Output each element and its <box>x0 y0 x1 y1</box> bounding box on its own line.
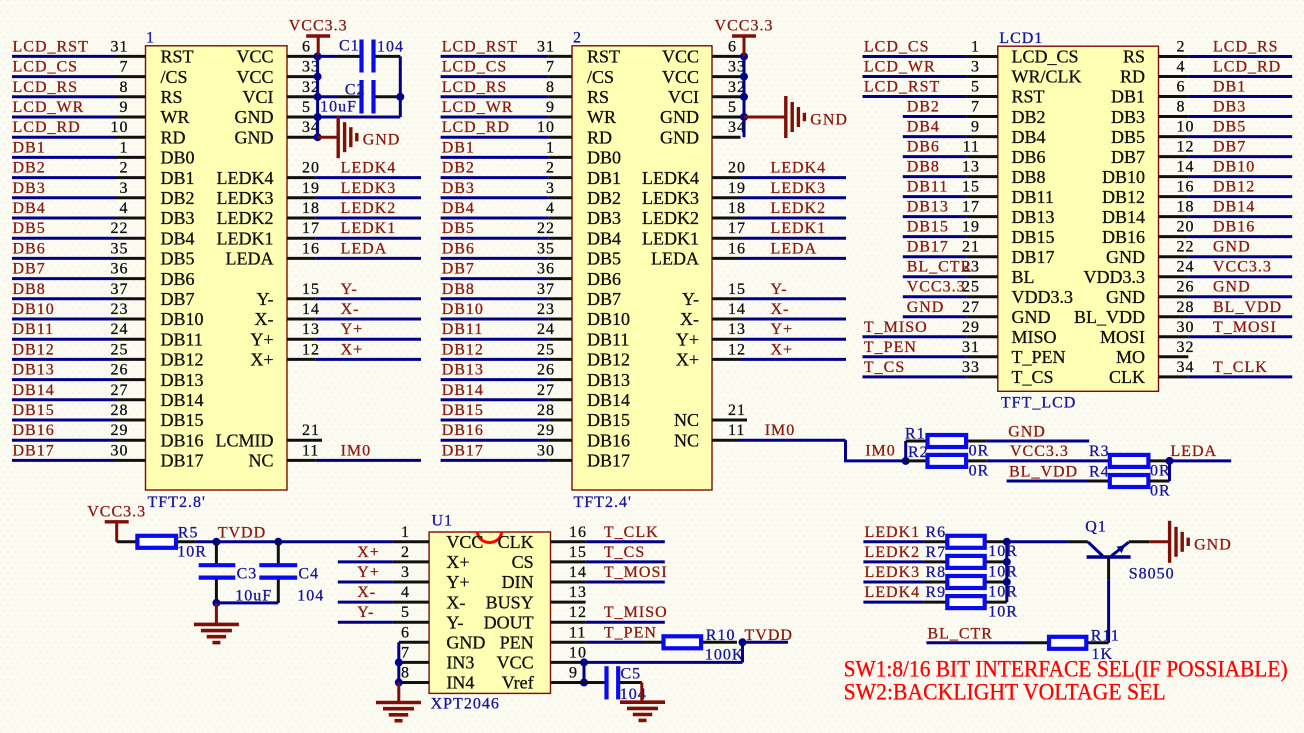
svg-text:DB5: DB5 <box>587 249 621 269</box>
svg-text:15: 15 <box>962 179 980 196</box>
svg-text:GND: GND <box>1106 287 1145 307</box>
svg-text:DB6: DB6 <box>587 269 621 289</box>
junction TFT2.8' power row 0 <box>314 52 322 60</box>
svg-text:C3: C3 <box>237 565 258 582</box>
svg-text:DB2: DB2 <box>1012 107 1046 127</box>
svg-text:DB17: DB17 <box>907 239 949 256</box>
svg-text:T_MISO: T_MISO <box>604 604 668 621</box>
svg-text:LEDK2: LEDK2 <box>771 200 827 217</box>
wire net LEDK1 to R6 <box>863 540 945 543</box>
wire net LEDK1 from TFT2.4' pin 17 <box>712 237 846 240</box>
svg-text:DB6: DB6 <box>161 269 195 289</box>
svg-text:DB12: DB12 <box>587 350 630 370</box>
wire net LEDK1 from TFT2.8' pin 17 <box>287 237 421 240</box>
svg-text:5: 5 <box>728 99 737 116</box>
svg-text:MOSI: MOSI <box>1100 327 1145 347</box>
pin stub TFT2.8' pin 21 LCMID <box>287 439 322 442</box>
svg-text:DIN: DIN <box>502 572 534 592</box>
svg-text:X+: X+ <box>676 350 699 370</box>
svg-text:DB12: DB12 <box>1213 179 1255 196</box>
wire net TVDD from R5 to U1 pin1 <box>195 540 393 543</box>
svg-text:RST: RST <box>1012 87 1045 107</box>
svg-text:DB6: DB6 <box>442 240 475 257</box>
svg-text:VCC: VCC <box>236 67 273 87</box>
power VCC3.3 at TFT2.8' <box>289 18 348 57</box>
svg-text:DB17: DB17 <box>587 451 630 471</box>
svg-text:37: 37 <box>537 281 555 298</box>
svg-text:NC: NC <box>248 451 273 471</box>
svg-text:DB7: DB7 <box>1111 147 1145 167</box>
wire net DB13 to TFT2.8' pin 26 <box>12 378 146 381</box>
svg-text:R8: R8 <box>926 564 947 581</box>
svg-text:37: 37 <box>111 281 129 298</box>
junction TFT2.4' power row 1 <box>740 73 748 81</box>
svg-text:36: 36 <box>537 261 555 278</box>
wire net BL_CTR to R11 <box>926 641 1047 644</box>
wire net T_MISO to TFT_LCD pin 29 <box>863 335 998 338</box>
wire net DB10 to TFT2.4' pin 23 <box>441 318 572 321</box>
ground GND at Q1 <box>1170 521 1232 563</box>
svg-text:DB13: DB13 <box>442 362 484 379</box>
junction TFT2.8' power row 4 <box>314 133 322 141</box>
wire net LEDK3 to R8 <box>863 581 945 584</box>
svg-text:31: 31 <box>111 38 129 55</box>
svg-text:22: 22 <box>1177 239 1195 256</box>
wire net T_PEN to TFT_LCD pin 31 <box>863 355 998 358</box>
svg-text:S8050: S8050 <box>1129 566 1175 583</box>
svg-text:DB12: DB12 <box>161 350 204 370</box>
junction LEDK bus 2 <box>1003 578 1011 586</box>
svg-text:13: 13 <box>569 584 587 601</box>
pin stub TFT2.4' pin 5 <box>712 116 741 119</box>
svg-text:DB3: DB3 <box>161 208 195 228</box>
pin stub TFT2.8' pin 6 <box>287 55 315 58</box>
wire net LEDA <box>1170 459 1232 462</box>
svg-text:26: 26 <box>1177 279 1195 296</box>
svg-text:27: 27 <box>111 382 129 399</box>
svg-text:19: 19 <box>302 180 320 197</box>
svg-text:104: 104 <box>297 588 324 605</box>
wire net DB1 to TFT2.4' pin 1 <box>441 156 572 159</box>
wire net DB8 to TFT2.8' pin 37 <box>12 297 146 300</box>
wire net T_PEN from U1 pin11 <box>551 641 662 644</box>
wire pins 9-10 bus <box>583 662 586 682</box>
capacitor C3 <box>199 542 236 603</box>
resistor R7 <box>947 556 1007 568</box>
svg-text:Y+: Y+ <box>446 572 469 592</box>
svg-text:DB3: DB3 <box>442 180 475 197</box>
svg-text:13: 13 <box>962 159 980 176</box>
wire net DB14 from TFT_LCD pin 18 <box>1159 215 1293 218</box>
svg-text:DB8: DB8 <box>13 281 46 298</box>
svg-text:BL_CTR: BL_CTR <box>907 259 973 276</box>
svg-text:LCD_CS: LCD_CS <box>864 39 930 56</box>
wire net DB3 to TFT2.8' pin 3 <box>12 196 146 199</box>
junction IM0 at R1/R2 <box>902 457 910 465</box>
junction TVDD at C3 <box>212 538 220 546</box>
wire net DB7 from TFT_LCD pin 12 <box>1159 155 1293 158</box>
wire net Y- to U1 pin 5 <box>338 621 429 624</box>
svg-text:VCC: VCC <box>662 47 699 67</box>
wire ground stem C5 <box>640 683 643 702</box>
svg-text:C5: C5 <box>621 666 642 683</box>
svg-text:DB14: DB14 <box>161 390 204 410</box>
wire net VCC3.3 from R2 to R3 <box>986 459 1108 462</box>
svg-text:LCD_CS: LCD_CS <box>1012 47 1079 67</box>
svg-text:DB13: DB13 <box>907 199 949 216</box>
svg-text:VCC3.3: VCC3.3 <box>87 503 146 520</box>
wire net BL_VDD to R4 <box>1007 480 1088 483</box>
wire net LCD_RD to TFT2.8' pin 10 <box>12 136 146 139</box>
wire net BL_VDD from TFT_LCD pin 28 <box>1159 315 1293 318</box>
wire net TVDD from R10 <box>743 641 789 644</box>
wire net X+ from TFT2.4' pin 12 <box>712 358 846 361</box>
svg-text:R3: R3 <box>1089 443 1110 460</box>
junction LEDK bus 0 <box>1003 538 1011 546</box>
wire net GND from TFT_LCD pin 26 <box>1159 295 1293 298</box>
svg-text:DB3: DB3 <box>1111 107 1145 127</box>
connector TFT2.8' body <box>146 46 288 490</box>
svg-text:R7: R7 <box>926 544 947 561</box>
wire IM0 up to R1 <box>904 441 907 461</box>
svg-text:LEDK3: LEDK3 <box>771 180 827 197</box>
svg-text:LEDK4: LEDK4 <box>865 584 921 601</box>
svg-text:DB11: DB11 <box>161 329 203 349</box>
svg-text:11: 11 <box>963 139 980 156</box>
svg-text:Y+: Y+ <box>341 321 364 338</box>
svg-text:26: 26 <box>111 362 129 379</box>
svg-text:7: 7 <box>120 59 129 76</box>
svg-text:SW1:8/16 BIT INTERFACE SEL(IF: SW1:8/16 BIT INTERFACE SEL(IF POSSIABLE) <box>844 657 1288 682</box>
svg-text:DB10: DB10 <box>587 309 630 329</box>
svg-text:R2: R2 <box>908 444 929 461</box>
svg-text:7: 7 <box>546 59 555 76</box>
svg-text:DB7: DB7 <box>161 289 195 309</box>
wire net DB2 to TFT_LCD pin 7 <box>903 115 998 118</box>
svg-text:GND: GND <box>1213 279 1251 296</box>
wire net Y- from TFT2.4' pin 15 <box>712 297 846 300</box>
wire net IM0 from TFT2.8' pin 11 <box>287 459 421 462</box>
svg-text:29: 29 <box>537 422 555 439</box>
svg-text:RST: RST <box>161 47 194 67</box>
svg-text:T_PEN: T_PEN <box>1012 347 1066 367</box>
svg-text:X+: X+ <box>357 544 380 561</box>
svg-text:27: 27 <box>962 299 980 316</box>
svg-text:R5: R5 <box>178 524 199 541</box>
wire net LCD_CS to TFT_LCD pin 1 <box>863 55 998 58</box>
svg-text:CLK: CLK <box>1109 367 1145 387</box>
svg-text:DB7: DB7 <box>13 261 46 278</box>
resistor R4 <box>1088 475 1170 487</box>
svg-text:DB11: DB11 <box>13 321 55 338</box>
wire net LCD_RS to TFT2.4' pin 8 <box>441 95 572 98</box>
wire C3/C4 ground return <box>216 601 278 604</box>
svg-text:DB5: DB5 <box>442 220 475 237</box>
resistor R6 <box>947 536 1007 548</box>
wire net LEDK4 from TFT2.8' pin 20 <box>287 176 421 179</box>
wire net LCD_CS to TFT2.4' pin 7 <box>441 75 572 78</box>
svg-text:T_MISO: T_MISO <box>864 319 928 336</box>
svg-text:9: 9 <box>569 665 578 682</box>
svg-text:Q1: Q1 <box>1085 519 1107 536</box>
pin stub U1 pin7 IN3 <box>399 661 429 664</box>
svg-text:DB3: DB3 <box>587 208 621 228</box>
svg-text:DB6: DB6 <box>907 139 940 156</box>
svg-text:GND: GND <box>1106 247 1145 267</box>
svg-text:DB6: DB6 <box>1012 147 1046 167</box>
ground earth at C3/C4 <box>194 624 239 642</box>
svg-text:X-: X- <box>680 309 699 329</box>
svg-text:13: 13 <box>302 321 320 338</box>
svg-text:RD: RD <box>1120 67 1145 87</box>
wire net DB4 to TFT2.4' pin 4 <box>441 217 572 220</box>
pin stub TFT2.4' pin 34 <box>712 136 741 139</box>
wire net Y+ from TFT2.8' pin 13 <box>287 338 421 341</box>
wire net DB1 to TFT2.8' pin 1 <box>12 156 146 159</box>
svg-text:18: 18 <box>1177 199 1195 216</box>
svg-text:9: 9 <box>971 119 980 136</box>
junction LEDK bus 1 <box>1003 558 1011 566</box>
svg-text:15: 15 <box>302 281 320 298</box>
svg-text:17: 17 <box>302 220 320 237</box>
resistor R9 <box>947 596 1007 608</box>
wire LEDK bus vertical <box>1005 542 1008 602</box>
wire net DB11 to TFT2.8' pin 24 <box>12 338 146 341</box>
wire net DB12 to TFT2.4' pin 25 <box>441 358 572 361</box>
wire net DB14 to TFT2.8' pin 27 <box>12 398 146 401</box>
wire net GND to TFT_LCD pin 27 <box>903 315 998 318</box>
svg-text:32: 32 <box>1177 339 1195 356</box>
svg-text:X-: X- <box>771 301 790 318</box>
wire net DB12 to TFT2.8' pin 25 <box>12 358 146 361</box>
svg-text:R11: R11 <box>1091 628 1120 645</box>
svg-text:DB4: DB4 <box>587 228 621 248</box>
svg-text:DB5: DB5 <box>13 220 46 237</box>
svg-text:LCMID: LCMID <box>216 430 274 450</box>
svg-text:1: 1 <box>401 524 410 541</box>
wire net LEDK3 from TFT2.4' pin 19 <box>712 196 846 199</box>
svg-text:12: 12 <box>569 604 587 621</box>
transistor Q1 <box>1087 542 1131 581</box>
svg-text:17: 17 <box>962 199 980 216</box>
svg-text:28: 28 <box>111 402 129 419</box>
svg-text:RS: RS <box>587 87 609 107</box>
svg-text:DB5: DB5 <box>161 249 195 269</box>
svg-text:DB1: DB1 <box>161 168 195 188</box>
svg-text:PEN: PEN <box>500 633 534 653</box>
svg-text:9: 9 <box>546 99 555 116</box>
svg-text:27: 27 <box>537 382 555 399</box>
svg-text:DB5: DB5 <box>1213 119 1246 136</box>
svg-text:/CS: /CS <box>587 67 614 87</box>
svg-text:DB1: DB1 <box>442 139 475 156</box>
svg-text:VCC: VCC <box>446 532 483 552</box>
svg-text:Vref: Vref <box>502 673 534 693</box>
svg-text:MO: MO <box>1116 347 1145 367</box>
wire U1 gnd bus <box>397 642 400 682</box>
svg-text:VCC3.3: VCC3.3 <box>715 18 774 35</box>
svg-text:15: 15 <box>728 281 746 298</box>
svg-text:DB4: DB4 <box>161 228 195 248</box>
svg-text:GND: GND <box>810 112 848 129</box>
svg-text:DB11: DB11 <box>442 321 484 338</box>
svg-text:TFT2.4': TFT2.4' <box>574 494 632 511</box>
wire net X- from TFT2.4' pin 14 <box>712 318 846 321</box>
svg-text:22: 22 <box>111 220 129 237</box>
wire net LEDK4 from TFT2.4' pin 20 <box>712 176 846 179</box>
wire R4 up to LEDA <box>1168 461 1171 481</box>
wire net DB10 from TFT_LCD pin 14 <box>1159 175 1293 178</box>
polarity arc on U1 <box>478 532 502 543</box>
wire net LCD_RS from TFT_LCD pin 2 <box>1159 55 1293 58</box>
svg-text:C4: C4 <box>298 565 319 582</box>
svg-text:DB3: DB3 <box>13 180 46 197</box>
wire net DB16 to TFT2.4' pin 29 <box>441 439 572 442</box>
svg-text:VCC3.3: VCC3.3 <box>289 18 348 35</box>
svg-text:DB12: DB12 <box>13 341 55 358</box>
svg-text:VCC: VCC <box>236 47 273 67</box>
svg-text:DB4: DB4 <box>1012 127 1046 147</box>
svg-text:Y-: Y- <box>341 281 358 298</box>
svg-text:11: 11 <box>728 422 745 439</box>
wire R10 down to pin10 row <box>741 642 744 662</box>
capacitor C5 <box>584 666 642 699</box>
svg-text:15: 15 <box>569 544 587 561</box>
svg-text:19: 19 <box>728 180 746 197</box>
op-amp U1 body <box>429 532 550 693</box>
wire net DB3 from TFT_LCD pin 8 <box>1159 115 1293 118</box>
svg-text:LEDK2: LEDK2 <box>341 200 397 217</box>
svg-text:GND: GND <box>1012 307 1051 327</box>
svg-text:LCD_RS: LCD_RS <box>13 79 79 96</box>
svg-text:12: 12 <box>1177 139 1195 156</box>
ground earth at C5 <box>620 702 665 720</box>
svg-text:35: 35 <box>111 240 129 257</box>
wire net DB12 from TFT_LCD pin 16 <box>1159 195 1293 198</box>
svg-text:GND: GND <box>907 299 945 316</box>
pin stub TFT2.4' pin 21 NC <box>712 419 747 422</box>
wire net LCD_RST to TFT2.8' pin 31 <box>12 55 146 58</box>
svg-text:VCC: VCC <box>497 653 534 673</box>
svg-text:LEDK1: LEDK1 <box>642 228 699 248</box>
capacitor C2 <box>338 80 401 114</box>
svg-text:19: 19 <box>962 219 980 236</box>
svg-text:X-: X- <box>255 309 274 329</box>
svg-text:DB2: DB2 <box>587 188 621 208</box>
svg-text:GND: GND <box>660 127 699 147</box>
svg-text:20: 20 <box>728 160 746 177</box>
svg-text:LCD1: LCD1 <box>999 30 1043 47</box>
svg-text:R10: R10 <box>706 627 736 644</box>
svg-text:LEDK4: LEDK4 <box>771 160 827 177</box>
wire VCC row to C1 <box>318 55 338 58</box>
junction U1 pin8 <box>395 679 403 687</box>
wire net DB8 to TFT2.4' pin 37 <box>441 297 572 300</box>
svg-text:1: 1 <box>146 30 155 47</box>
svg-text:10R: 10R <box>988 563 1018 580</box>
svg-text:LEDK1: LEDK1 <box>217 228 274 248</box>
wire GND stem TFT2.8' <box>318 136 339 139</box>
wire ground stem C3 <box>215 603 218 624</box>
junction U1 pin7 <box>395 658 403 666</box>
svg-text:VCI: VCI <box>668 87 699 107</box>
svg-text:5: 5 <box>401 604 410 621</box>
wire net LCD_WR to TFT_LCD pin 3 <box>863 75 998 78</box>
resistor R5 <box>137 536 195 548</box>
junction C2 right lead <box>396 93 404 101</box>
wire net DB8 to TFT_LCD pin 13 <box>903 175 998 178</box>
svg-text:LCD_CS: LCD_CS <box>442 59 508 76</box>
svg-text:LCD_WR: LCD_WR <box>442 99 514 116</box>
svg-text:XPT2046: XPT2046 <box>431 696 500 713</box>
wire net LCD_WR to TFT2.4' pin 9 <box>441 116 572 119</box>
svg-text:RS: RS <box>161 87 183 107</box>
svg-text:DB8: DB8 <box>907 159 940 176</box>
wire net T_CLK from U1 <box>551 540 665 543</box>
svg-text:11: 11 <box>569 624 586 641</box>
wire net DB5 from TFT_LCD pin 10 <box>1159 135 1293 138</box>
svg-text:LEDA: LEDA <box>651 249 699 269</box>
svg-text:4: 4 <box>1177 59 1186 76</box>
svg-text:TVDD: TVDD <box>745 627 793 644</box>
svg-text:DB17: DB17 <box>161 451 204 471</box>
svg-text:21: 21 <box>728 402 746 419</box>
svg-text:LEDA: LEDA <box>1170 443 1217 460</box>
svg-text:4: 4 <box>546 200 555 217</box>
wire LEDK bus to Q1 collector <box>1007 540 1088 543</box>
svg-text:DB1: DB1 <box>1111 87 1145 107</box>
resistor R10 <box>664 636 738 648</box>
svg-text:DB14: DB14 <box>13 382 55 399</box>
svg-text:DB10: DB10 <box>442 301 484 318</box>
wire net LEDA from TFT2.8' pin 16 <box>287 257 421 260</box>
svg-text:Y+: Y+ <box>771 321 794 338</box>
wire net DB1 from TFT_LCD pin 6 <box>1159 95 1293 98</box>
svg-text:SW2:BACKLIGHT VOLTAGE SEL: SW2:BACKLIGHT VOLTAGE SEL <box>844 680 1166 705</box>
resistor R8 <box>947 576 1007 588</box>
wire net DB6 to TFT2.4' pin 35 <box>441 257 572 260</box>
svg-text:DB11: DB11 <box>907 179 949 196</box>
svg-text:29: 29 <box>962 319 980 336</box>
junction ground node at C3 <box>212 599 220 607</box>
svg-text:Y-: Y- <box>446 612 463 632</box>
pin stub TFT2.4' pin 6 <box>712 55 741 58</box>
svg-text:1: 1 <box>971 39 980 56</box>
wire net GND from TFT_LCD pin 22 <box>1159 255 1293 258</box>
wire net LEDK2 from TFT2.4' pin 18 <box>712 217 846 220</box>
svg-text:2: 2 <box>401 544 410 561</box>
svg-text:LEDK4: LEDK4 <box>642 168 699 188</box>
svg-text:DB4: DB4 <box>442 200 475 217</box>
wire net Y+ from TFT2.4' pin 13 <box>712 338 846 341</box>
svg-text:DB17: DB17 <box>442 442 484 459</box>
wire net IM0 horizontal <box>844 459 906 462</box>
pin stub TFT2.4' pin 32 <box>712 95 741 98</box>
svg-text:NC: NC <box>674 430 699 450</box>
svg-text:10R: 10R <box>988 583 1018 600</box>
svg-text:VCC3.3: VCC3.3 <box>907 279 966 296</box>
svg-text:DB12: DB12 <box>1102 187 1145 207</box>
wire net Y- from TFT2.8' pin 15 <box>287 297 421 300</box>
wire VCI row to C2 <box>318 95 338 98</box>
svg-text:LCD_RD: LCD_RD <box>442 119 510 136</box>
svg-text:T_CLK: T_CLK <box>1213 359 1268 376</box>
svg-text:10R: 10R <box>177 544 207 561</box>
svg-text:1: 1 <box>546 139 555 156</box>
svg-text:VCC3.3: VCC3.3 <box>1010 443 1069 460</box>
svg-text:DB3: DB3 <box>1213 99 1246 116</box>
svg-text:LEDK3: LEDK3 <box>217 188 274 208</box>
